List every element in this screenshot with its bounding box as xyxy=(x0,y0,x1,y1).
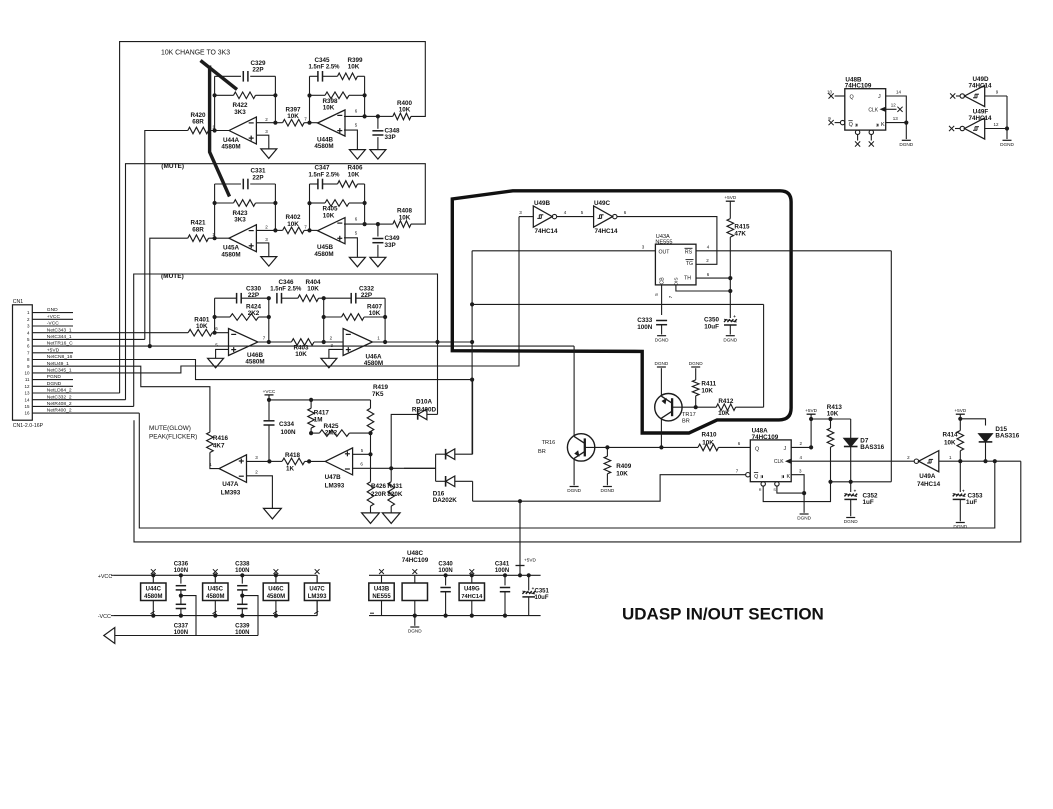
node xyxy=(322,296,326,300)
wire pin6 NetTR16_C to TR16 collector xyxy=(32,345,574,347)
svg-text:K: K xyxy=(787,474,791,480)
svg-text:74HC109: 74HC109 xyxy=(845,83,872,90)
node R417 top xyxy=(309,398,313,402)
wire U48B CLK pin12 unused xyxy=(886,108,897,110)
svg-text:Q: Q xyxy=(755,446,759,452)
svg-text:D10A: D10A xyxy=(416,398,433,405)
wire R421 input from CN1 pin6 xyxy=(150,238,188,346)
svg-text:+5VD: +5VD xyxy=(524,558,536,563)
svg-text:10K: 10K xyxy=(718,410,730,417)
svg-text:PEAK(FLICKER): PEAK(FLICKER) xyxy=(149,434,197,441)
svg-text:10K: 10K xyxy=(307,285,319,292)
svg-text:BAS316: BAS316 xyxy=(995,433,1019,440)
svg-text:R426: R426 xyxy=(371,483,387,490)
svg-text:(MUTE): (MUTE) xyxy=(161,163,184,170)
node inverting input A xyxy=(213,236,217,240)
svg-text:74HC14: 74HC14 xyxy=(594,228,618,235)
svg-text:R: R xyxy=(759,488,762,492)
svg-text:S: S xyxy=(773,488,776,492)
wire opamp A output xyxy=(256,122,275,124)
wire U46B plus input to ground xyxy=(216,349,229,358)
wire D16 lower to +5VD rail xyxy=(472,481,474,501)
inverter U49C 74HC14 xyxy=(594,206,613,227)
node fb left xyxy=(213,93,217,97)
wire U49D/F join to DGND xyxy=(1006,96,1008,139)
capacitor C351 10uF polarized xyxy=(528,575,530,590)
inverter U49A 74HC14 xyxy=(919,451,939,472)
svg-text:33P: 33P xyxy=(385,242,396,249)
svg-text:100N: 100N xyxy=(235,568,249,574)
node DIS xyxy=(728,289,732,293)
resistor R403 10K xyxy=(258,341,292,343)
power +5VD xyxy=(726,200,735,202)
wire U48B Qbar bubble unused xyxy=(840,120,844,124)
resistor R406a 10K top xyxy=(338,181,358,188)
power +5VD for R414 xyxy=(956,413,965,415)
node rail xyxy=(274,614,278,618)
svg-text:TR17: TR17 xyxy=(682,412,696,418)
resistor R418 1K xyxy=(269,460,282,462)
ground xyxy=(208,358,224,368)
capacitor C346 1.5nF 2.5% xyxy=(276,293,278,304)
svg-text:GND: GND xyxy=(47,307,58,313)
power +5VD for U48A xyxy=(807,413,816,415)
svg-text:R414: R414 xyxy=(942,432,958,439)
wire vertical x268.8 xyxy=(268,298,270,342)
svg-text:CLK: CLK xyxy=(774,459,784,465)
op-amp U47A LM393 xyxy=(219,455,246,483)
svg-text:4K7: 4K7 xyxy=(213,442,225,449)
wire U46A plus input to ground xyxy=(329,349,343,358)
svg-text:NE555: NE555 xyxy=(655,240,672,246)
node xyxy=(413,614,417,618)
svg-text:4580M: 4580M xyxy=(267,594,285,600)
node rail xyxy=(151,614,155,618)
svg-text:10K: 10K xyxy=(295,351,307,358)
ground DGND xyxy=(846,517,855,519)
svg-text:+: + xyxy=(854,488,857,493)
resistor R416 4K7 xyxy=(207,432,214,452)
node R425 left xyxy=(309,431,313,435)
svg-text:DGND: DGND xyxy=(844,519,858,524)
capacitor C341 100N xyxy=(504,575,506,585)
node C346 junction xyxy=(267,296,271,300)
node xyxy=(802,491,806,495)
wire R412 riser xyxy=(763,304,765,407)
svg-text:BAS316: BAS316 xyxy=(860,444,884,451)
svg-text:2M2: 2M2 xyxy=(325,430,338,437)
svg-text:10K: 10K xyxy=(399,214,411,221)
svg-text:10uF: 10uF xyxy=(535,595,549,601)
flip-flop U48B 74HC109 body xyxy=(845,89,886,130)
svg-text:4580M: 4580M xyxy=(314,143,333,150)
svg-text:NetC343_1: NetC343_1 xyxy=(47,327,72,333)
svg-text:LM393: LM393 xyxy=(308,594,327,600)
capacitor C347 1.5nF 2.5% xyxy=(310,183,318,185)
node xyxy=(363,201,367,205)
ground DGND xyxy=(657,335,666,337)
node xyxy=(267,398,271,402)
svg-text:22P: 22P xyxy=(361,292,372,299)
svg-text:10K: 10K xyxy=(323,105,335,112)
ground DGND xyxy=(603,486,612,488)
svg-text:DGND: DGND xyxy=(1000,142,1014,147)
node xyxy=(828,417,832,421)
node rail xyxy=(240,573,244,577)
wire net loop box3 (NetC332_2) xyxy=(134,274,438,406)
node U47B input xyxy=(307,459,311,463)
wire feedback left vertical xyxy=(214,184,216,238)
svg-text:16: 16 xyxy=(24,411,30,416)
resistor R407 10K xyxy=(324,316,342,318)
node xyxy=(363,114,367,118)
wire opamp B pin6 xyxy=(344,223,365,225)
wire PGND return line xyxy=(115,596,196,636)
ground xyxy=(370,150,386,160)
svg-text:10K: 10K xyxy=(287,221,299,228)
node inverting input B xyxy=(307,121,311,125)
resistor R412 10K xyxy=(696,406,717,408)
svg-text:+VCC: +VCC xyxy=(263,389,276,394)
svg-text:100N: 100N xyxy=(495,568,509,574)
svg-text:1uF: 1uF xyxy=(863,499,874,506)
resistor R424 2K2 xyxy=(215,316,230,318)
node output xyxy=(376,114,380,118)
node xyxy=(389,466,393,470)
svg-text:C337: C337 xyxy=(174,623,189,629)
node fb right xyxy=(273,93,277,97)
wire opamp A pin3 to ground xyxy=(256,135,268,149)
wire opamp B pin5 to ground xyxy=(344,130,357,150)
markup stroke diagonal xyxy=(201,61,238,90)
capacitor C339 100N xyxy=(237,603,247,605)
svg-text:10K: 10K xyxy=(702,439,714,446)
wire opamp A output xyxy=(256,229,275,231)
op-amp U44A 4580M xyxy=(229,117,256,144)
svg-text:J: J xyxy=(878,94,881,100)
ground DGND xyxy=(902,139,911,141)
svg-text:DGND: DGND xyxy=(567,488,581,493)
wire U47C rail stub xyxy=(316,575,318,615)
wire U48A K pin3 xyxy=(791,475,804,493)
ground DGND xyxy=(956,522,965,524)
wire TR16 collector riser to pin6 row xyxy=(573,346,575,436)
wire bottom rail to RS riser xyxy=(831,481,892,483)
resistor R431 820K xyxy=(390,468,392,481)
svg-text:DGND: DGND xyxy=(797,516,811,521)
svg-text:12: 12 xyxy=(24,384,30,389)
node rail xyxy=(213,614,217,618)
svg-text:+5VD: +5VD xyxy=(805,408,817,413)
node rail xyxy=(274,573,278,577)
svg-text:CN1: CN1 xyxy=(13,299,23,305)
svg-text:+5VD: +5VD xyxy=(724,195,736,200)
capacitor C353 1uF polarized xyxy=(959,461,961,492)
resistor R406b lower xyxy=(310,202,326,204)
wire U43A DIS pin7 xyxy=(676,285,730,291)
svg-text:|▮: |▮ xyxy=(761,475,764,479)
svg-text:U45C: U45C xyxy=(208,587,224,593)
ground xyxy=(264,508,282,519)
svg-text:+VCC: +VCC xyxy=(47,314,61,320)
svg-text:LM393: LM393 xyxy=(221,490,241,497)
wire U49C out to U43A TG pin2 xyxy=(617,217,717,265)
diode D10A RB400D xyxy=(417,409,419,420)
capacitor C352 1uF polarized xyxy=(850,482,852,492)
svg-text:22P: 22P xyxy=(252,174,263,181)
svg-text:NE555: NE555 xyxy=(372,594,391,600)
ground xyxy=(321,358,337,368)
op-amp U44B 4580M xyxy=(318,110,345,136)
svg-text:10K CHANGE TO 3K3: 10K CHANGE TO 3K3 xyxy=(161,50,230,57)
wire feedback right vertical xyxy=(274,184,276,230)
wire control row y304 to R412 riser xyxy=(472,303,763,305)
svg-text:10: 10 xyxy=(827,89,833,94)
svg-text:RB400D: RB400D xyxy=(412,407,437,414)
node rail xyxy=(179,573,183,577)
power +VCC xyxy=(265,394,274,396)
ground xyxy=(362,513,380,524)
svg-text:47K: 47K xyxy=(734,231,746,238)
resistor R417 1M xyxy=(310,400,312,408)
wire U46A output row xyxy=(372,341,472,343)
node pin6 junction xyxy=(148,344,152,348)
svg-text:U49B: U49B xyxy=(534,200,551,207)
ground xyxy=(349,150,365,160)
capacitor C334 100N xyxy=(264,420,275,422)
svg-text:U47C: U47C xyxy=(309,587,325,593)
resistor R409 10K xyxy=(606,447,608,456)
svg-text:4580M: 4580M xyxy=(221,144,240,151)
svg-text:C351: C351 xyxy=(535,588,550,594)
svg-text:PGND: PGND xyxy=(47,374,62,380)
svg-text:RS: RS xyxy=(685,250,693,256)
svg-text:820K: 820K xyxy=(387,491,403,498)
resistor R419 7K5 xyxy=(370,400,372,408)
svg-text:100N: 100N xyxy=(438,568,452,574)
wire RS riser x891.3 xyxy=(890,251,892,482)
node base xyxy=(694,405,698,409)
svg-text:10: 10 xyxy=(24,371,30,376)
wire U48B pin Q unused xyxy=(835,95,845,97)
svg-text:+: + xyxy=(733,314,736,319)
resistor R399a 10K top xyxy=(338,73,358,80)
svg-text:100N: 100N xyxy=(637,324,653,331)
svg-text:DGND: DGND xyxy=(655,337,669,342)
inverter U49D 74HC14 xyxy=(950,93,955,98)
svg-text:74HC14: 74HC14 xyxy=(461,594,483,600)
svg-text:+5VD: +5VD xyxy=(954,408,966,413)
resistor R414 10K xyxy=(957,431,964,451)
node fb left xyxy=(213,201,217,205)
capacitor C345 1.5nF 2.5% xyxy=(310,75,318,77)
svg-text:BR: BR xyxy=(538,449,546,455)
wire U48A pin7 bubble xyxy=(746,473,750,477)
svg-text:10K: 10K xyxy=(701,388,713,395)
svg-text:|▮: |▮ xyxy=(876,123,879,127)
node input U46A xyxy=(322,340,326,344)
resistor R426 220R xyxy=(367,482,374,506)
resistor R399b lower xyxy=(310,94,326,96)
resistor R415 47K xyxy=(729,201,731,218)
svg-text:DGND: DGND xyxy=(47,381,62,387)
wire feedback B left vertical xyxy=(309,184,311,230)
svg-text:-VCC: -VCC xyxy=(47,321,59,327)
node xyxy=(383,315,387,319)
ground xyxy=(370,257,386,267)
node xyxy=(849,480,853,484)
svg-text:R411: R411 xyxy=(701,380,716,387)
transistor TR16 BR xyxy=(567,434,594,461)
node R419 bottom xyxy=(368,431,372,435)
node xyxy=(435,340,439,344)
node inverting input B xyxy=(307,228,311,232)
wire U43A OUT pin3 to riser xyxy=(472,250,655,252)
svg-text:LM393: LM393 xyxy=(325,482,345,489)
svg-text:1.5nF 2.5%: 1.5nF 2.5% xyxy=(308,172,340,178)
wire TR17 emitter down xyxy=(660,418,662,447)
wire feedback B right vertical xyxy=(364,76,366,116)
capacitor C350 10uF polarized xyxy=(724,319,727,322)
svg-text:10K: 10K xyxy=(616,470,628,477)
ic U49G 74HC14 power box xyxy=(471,575,473,615)
node mid xyxy=(241,590,243,604)
svg-text:R412: R412 xyxy=(718,398,734,405)
wire U48B J pin14 xyxy=(886,96,907,123)
capacitor C330 22P xyxy=(215,297,237,299)
node inverting input A xyxy=(213,128,217,132)
wire input xyxy=(209,237,230,239)
ground DGND up xyxy=(691,366,700,368)
svg-text:4580M: 4580M xyxy=(206,594,224,600)
svg-text:CN1-2.0-16P: CN1-2.0-16P xyxy=(13,423,44,429)
svg-text:NetR400_2: NetR400_2 xyxy=(47,408,72,414)
svg-text:DA202K: DA202K xyxy=(433,497,458,504)
power +5VD tap with D16 riser xyxy=(519,501,521,575)
wire U49B out to U49C in xyxy=(557,216,594,218)
power rail bottom xyxy=(369,615,541,617)
ground DGND xyxy=(726,335,735,337)
node rail xyxy=(151,573,155,577)
wire D10A to riser xyxy=(427,413,438,415)
node xyxy=(904,121,908,125)
wire feedback B right vertical xyxy=(364,184,366,224)
svg-text:(MUTE): (MUTE) xyxy=(161,273,184,280)
resistor R400 10K xyxy=(378,115,393,117)
diode D16 lower xyxy=(436,480,446,482)
svg-text:TR16: TR16 xyxy=(542,440,556,446)
node xyxy=(322,315,326,319)
resistor R421 68R xyxy=(188,235,209,242)
svg-text:R418: R418 xyxy=(285,452,301,459)
svg-text:NetLD84_2: NetLD84_2 xyxy=(47,388,72,394)
svg-text:DGND: DGND xyxy=(600,488,614,493)
wire feedback right vertical xyxy=(274,76,276,122)
svg-text:U47B: U47B xyxy=(325,474,342,481)
svg-text:U46C: U46C xyxy=(268,587,284,593)
svg-text:|▮: |▮ xyxy=(782,475,785,479)
wire riser to U46A output row xyxy=(437,342,439,414)
svg-text:1.5nF 2.5%: 1.5nF 2.5% xyxy=(308,65,340,71)
wire U47B plus pin5 xyxy=(353,453,371,455)
resistor R397 10K xyxy=(275,122,282,124)
ground DGND xyxy=(570,486,579,488)
svg-text:|▮: |▮ xyxy=(855,123,858,127)
node xyxy=(213,315,217,319)
svg-text:+5VD: +5VD xyxy=(47,347,60,353)
wire U47A pin3 xyxy=(247,460,270,462)
inverter U49B 74HC14 xyxy=(519,216,533,218)
ic U47C LM393 power box xyxy=(316,575,318,615)
wire U43A RS pin4 to right riser xyxy=(696,250,891,252)
svg-text:+VCC: +VCC xyxy=(98,574,113,580)
wire pin8 NetCN8_16 jog xyxy=(32,360,472,380)
wire R420 input from CN1 pin5 xyxy=(145,131,188,340)
svg-text:10K: 10K xyxy=(369,310,381,317)
svg-text:74HC14: 74HC14 xyxy=(968,115,992,122)
svg-text:DGND: DGND xyxy=(689,361,703,366)
svg-text:22P: 22P xyxy=(252,67,263,74)
svg-text:100N: 100N xyxy=(281,429,297,436)
node xyxy=(659,445,663,449)
svg-text:U47A: U47A xyxy=(222,481,239,488)
wire D16 common xyxy=(435,454,437,481)
timer U43A NE555 body xyxy=(655,244,696,285)
ground DGND up xyxy=(657,366,666,368)
svg-text:C346: C346 xyxy=(278,279,294,286)
wire OUT riser x472.1 xyxy=(471,251,473,454)
arrow PGND off-page xyxy=(104,628,115,644)
wire feedback left vertical xyxy=(214,76,216,130)
node rail xyxy=(213,573,217,577)
resistor R410 10K xyxy=(698,444,719,451)
node xyxy=(470,302,474,306)
svg-text:10K: 10K xyxy=(944,439,956,446)
resistor R413 10K xyxy=(830,419,832,428)
wire TR16 emitter to DGND xyxy=(573,458,575,485)
svg-text:7K5: 7K5 xyxy=(372,391,384,398)
svg-text:4580M: 4580M xyxy=(144,594,162,600)
node TH xyxy=(728,276,732,280)
svg-text:12: 12 xyxy=(891,103,897,108)
wire net loop box2 (NetR408_2) xyxy=(126,164,426,400)
svg-text:C345: C345 xyxy=(314,57,330,64)
svg-text:220R: 220R xyxy=(371,491,387,498)
wire vertical R419 node to R426 xyxy=(370,433,372,482)
svg-text:3K3: 3K3 xyxy=(234,217,246,224)
svg-text:U43B: U43B xyxy=(374,587,390,593)
capacitor C333 100N xyxy=(656,320,667,322)
svg-text:R416: R416 xyxy=(213,435,229,442)
connector CN1 body xyxy=(13,305,33,420)
node xyxy=(267,315,271,319)
svg-text:BR: BR xyxy=(682,419,690,425)
flip-flop U48A 74HC109 body xyxy=(750,440,791,482)
svg-text:C334: C334 xyxy=(279,421,295,428)
svg-text:68R: 68R xyxy=(192,119,204,126)
svg-text:13: 13 xyxy=(893,116,899,121)
wire U48A bottom-right bubble xyxy=(775,482,779,486)
svg-text:68R: 68R xyxy=(192,226,204,233)
power rail +5VD top xyxy=(369,574,541,576)
wire U49D output xyxy=(985,95,1007,97)
ground xyxy=(349,257,365,267)
node stage junction xyxy=(273,228,277,232)
svg-text:10K: 10K xyxy=(399,107,411,114)
svg-text:74HC14: 74HC14 xyxy=(968,83,992,90)
wire vertical x323.7 xyxy=(323,298,325,342)
node pin3 xyxy=(267,459,271,463)
